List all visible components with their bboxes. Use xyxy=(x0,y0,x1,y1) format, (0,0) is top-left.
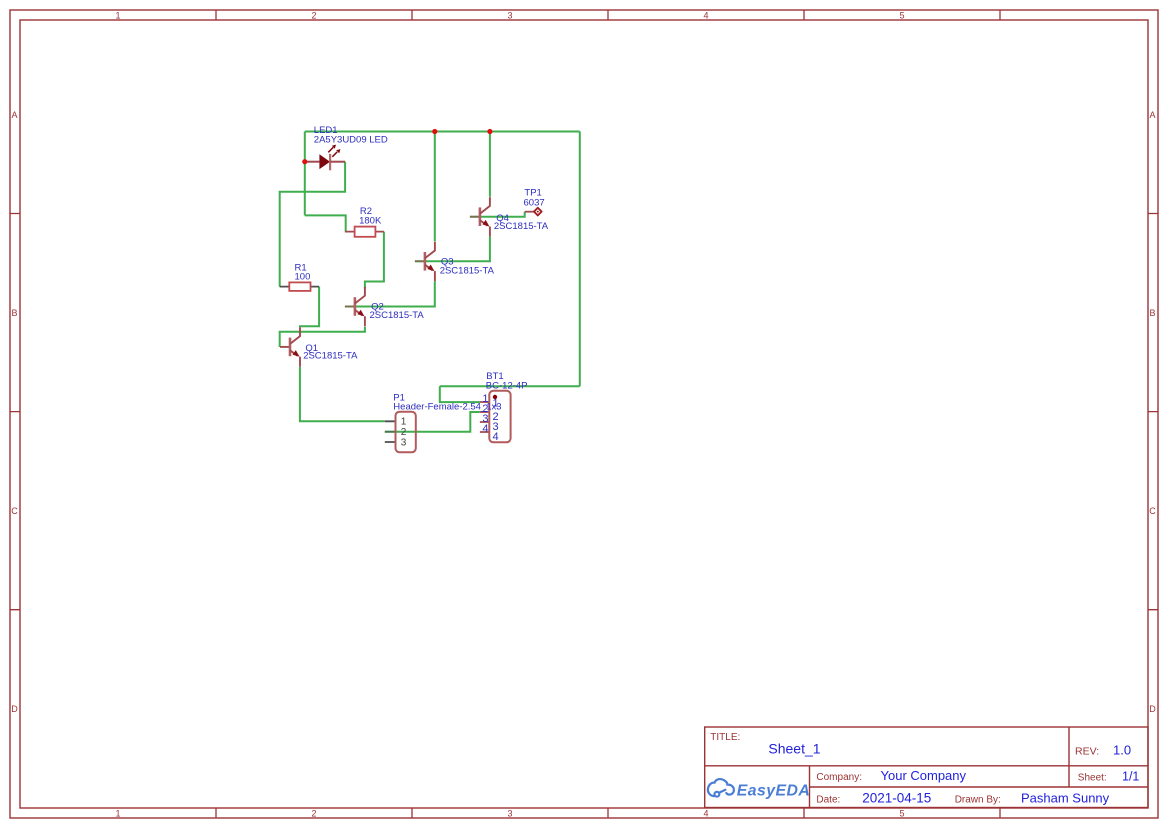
junction node LED anode xyxy=(302,159,307,164)
wire P1 pin2 to BT1 pin2 xyxy=(385,412,480,432)
svg-text:B: B xyxy=(1149,308,1155,318)
svg-text:A: A xyxy=(1149,110,1155,120)
BT1 pin numbers outside xyxy=(482,393,488,435)
svg-text:B: B xyxy=(11,308,17,318)
wire jog to R2 left pin xyxy=(305,215,346,231)
wire VCC bottom horizontal to BT1 xyxy=(440,385,580,387)
wire Q4 emitter to Q3 base xyxy=(415,237,490,262)
svg-text:1: 1 xyxy=(401,417,407,428)
svg-text:REV:: REV: xyxy=(1075,745,1099,757)
frame row letters right xyxy=(1149,110,1156,714)
svg-text:TITLE:: TITLE: xyxy=(710,732,740,743)
P1 pin numbers xyxy=(401,417,407,449)
svg-text:4: 4 xyxy=(493,431,499,443)
resistor R2 xyxy=(345,227,384,237)
wire VCC top rail xyxy=(305,131,580,133)
svg-text:2SC1815-TA: 2SC1815-TA xyxy=(494,221,549,232)
wire Q4 collector vertical xyxy=(489,132,491,197)
svg-text:2: 2 xyxy=(311,11,316,21)
svg-text:Drawn By:: Drawn By: xyxy=(955,794,1001,805)
wire R2 right to Q2 collector xyxy=(365,232,384,288)
svg-text:D: D xyxy=(11,704,18,714)
EasyEDA logo cloud xyxy=(708,779,734,797)
svg-text:5: 5 xyxy=(899,809,904,819)
svg-text:EasyEDA: EasyEDA xyxy=(737,782,810,799)
transistor Q2 xyxy=(345,287,365,327)
svg-text:C: C xyxy=(11,506,18,516)
frame column numbers bottom xyxy=(115,809,904,819)
svg-text:Sheet_1: Sheet_1 xyxy=(768,741,820,757)
frame row ticks left xyxy=(10,214,20,610)
svg-text:A: A xyxy=(11,110,17,120)
wire Q4 base to TP1 xyxy=(470,212,525,217)
svg-text:2SC1815-TA: 2SC1815-TA xyxy=(440,265,495,276)
frame column ticks top xyxy=(216,10,1000,20)
wire R1 right to Q1 collector xyxy=(300,287,319,328)
svg-text:2: 2 xyxy=(401,427,407,438)
svg-text:6037: 6037 xyxy=(524,197,545,208)
transistor Q3 xyxy=(415,242,435,282)
frame column ticks bottom xyxy=(216,808,1000,818)
svg-text:Date:: Date: xyxy=(816,794,840,805)
svg-text:4: 4 xyxy=(482,423,488,435)
svg-text:Sheet:: Sheet: xyxy=(1078,773,1107,784)
frame column numbers top xyxy=(115,11,904,21)
svg-text:1/1: 1/1 xyxy=(1122,770,1139,784)
svg-text:C: C xyxy=(1149,506,1156,516)
svg-text:3: 3 xyxy=(507,809,512,819)
svg-text:BC-12-4P: BC-12-4P xyxy=(486,381,528,392)
frame row letters left xyxy=(11,110,18,714)
svg-text:Header-Female-2.54_1x3: Header-Female-2.54_1x3 xyxy=(393,401,501,412)
svg-text:1: 1 xyxy=(115,11,120,21)
svg-text:100: 100 xyxy=(295,272,311,283)
wire LED cathode to R1 left pin xyxy=(280,162,345,287)
svg-text:2021-04-15: 2021-04-15 xyxy=(862,790,931,805)
transistor Q4 xyxy=(470,197,490,237)
transistor Q1 xyxy=(280,327,300,367)
svg-text:4: 4 xyxy=(703,11,708,21)
svg-text:3: 3 xyxy=(401,438,407,449)
header P1 xyxy=(385,412,416,453)
svg-text:180K: 180K xyxy=(359,216,382,227)
svg-text:2SC1815-TA: 2SC1815-TA xyxy=(303,350,358,361)
svg-text:4: 4 xyxy=(703,809,708,819)
wire Q3 collector vertical xyxy=(434,132,436,242)
svg-text:1: 1 xyxy=(115,809,120,819)
svg-text:Your Company: Your Company xyxy=(881,768,967,783)
wire Q2 emitter to Q1 base xyxy=(280,327,365,347)
svg-text:5: 5 xyxy=(899,11,904,21)
wire Q3 emitter to Q2 base xyxy=(345,281,435,306)
svg-text:Pasham Sunny: Pasham Sunny xyxy=(1021,790,1110,805)
junction node Q4 collector rail xyxy=(487,129,492,134)
wire LED anode vertical xyxy=(304,132,306,216)
test point TP1 xyxy=(525,208,542,216)
svg-text:Company:: Company: xyxy=(816,772,862,783)
svg-text:1.0: 1.0 xyxy=(1113,743,1131,758)
BT1 pin numbers inside xyxy=(493,398,499,443)
svg-text:2SC1815-TA: 2SC1815-TA xyxy=(370,310,425,321)
junction node Q3 collector rail xyxy=(432,129,437,134)
battery connector BT1 xyxy=(480,391,511,443)
svg-text:2A5Y3UD09 LED: 2A5Y3UD09 LED xyxy=(314,135,388,146)
title block outline xyxy=(705,727,1148,808)
svg-text:2: 2 xyxy=(311,809,316,819)
frame row ticks right xyxy=(1148,214,1158,610)
svg-text:D: D xyxy=(1149,704,1156,714)
svg-text:3: 3 xyxy=(507,11,512,21)
wire BT1 pin1 elbow xyxy=(440,386,480,402)
LED LED1 xyxy=(307,145,345,171)
wire Q1 emitter to P1 pin1 xyxy=(300,367,385,421)
wire VCC right vertical xyxy=(579,132,581,387)
resistor R1 xyxy=(280,282,319,291)
